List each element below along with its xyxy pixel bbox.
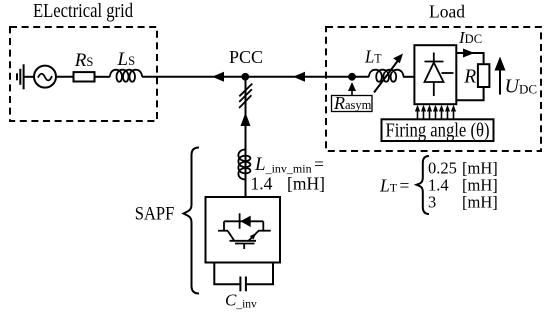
resistor RS bbox=[74, 72, 95, 81]
svg-text:[mH]: [mH] bbox=[287, 173, 325, 193]
thyristor symbol inside rectifier bbox=[425, 53, 454, 97]
inverter box U1 bbox=[206, 197, 281, 263]
node Rasym junction dot bbox=[348, 73, 356, 81]
SAPF brace bbox=[184, 148, 200, 294]
wire inverter to capacitor right bbox=[246, 263, 273, 285]
arrow up toward PCC on SAPF branch bbox=[241, 113, 251, 127]
wire LT to rectifier bbox=[403, 76, 414, 78]
svg-text:1.4: 1.4 bbox=[251, 173, 273, 193]
wire ground to source bbox=[24, 76, 34, 78]
diode D1 bbox=[240, 216, 250, 227]
arrow UDC bbox=[495, 57, 506, 95]
svg-text:SAPF: SAPF bbox=[135, 204, 175, 224]
box label Rasym bbox=[332, 96, 373, 112]
firing angle box bbox=[382, 119, 494, 141]
wire RS to LS bbox=[95, 76, 111, 78]
arrow on wire (current toward grid) bbox=[212, 72, 224, 82]
inductor LS bbox=[110, 70, 142, 82]
wire LS to PCC bbox=[142, 76, 246, 78]
variability arrow through LT bbox=[374, 54, 403, 93]
arrow IDC on wire bbox=[463, 49, 475, 58]
wire PCC to load bbox=[246, 76, 353, 78]
node PCC junction dot bbox=[241, 73, 249, 81]
three-phase slashes on PCC branch bbox=[239, 84, 252, 108]
arrow on wire (current toward PCC) bbox=[293, 72, 305, 82]
wire PCC down to inverter bbox=[245, 77, 247, 197]
brace for LT values bbox=[417, 156, 430, 214]
svg-text:[mH]: [mH] bbox=[462, 193, 498, 212]
svg-text:ELectrical grid: ELectrical grid bbox=[33, 1, 133, 22]
resistor R bbox=[478, 64, 490, 87]
diode loop wires bbox=[218, 230, 228, 232]
wire rectifier to R bottom bbox=[456, 87, 483, 100]
ac source VS bbox=[34, 66, 56, 88]
wire source to RS bbox=[56, 76, 74, 78]
igbt with antiparallel diode inside inverter bbox=[218, 213, 271, 249]
inductor LT (variable) bbox=[369, 70, 403, 82]
dashed box: Electrical grid bbox=[10, 27, 157, 121]
wire inverter to capacitor left bbox=[214, 263, 240, 285]
svg-text:Load: Load bbox=[429, 1, 465, 21]
svg-text:Firing angle (θ): Firing angle (θ) bbox=[386, 119, 490, 141]
firing pulse arrows bbox=[415, 105, 456, 120]
wire Rasym node to LT bbox=[352, 76, 369, 78]
igbt Q1 bbox=[228, 231, 235, 241]
svg-text:PCC: PCC bbox=[229, 47, 263, 67]
dashed box: Load bbox=[326, 27, 541, 151]
rectifier box bbox=[414, 45, 456, 104]
svg-text:=: = bbox=[400, 176, 410, 196]
ground bbox=[17, 64, 24, 89]
svg-text:R: R bbox=[463, 67, 476, 88]
svg-text:3: 3 bbox=[428, 193, 436, 212]
wire rectifier to R top bbox=[456, 53, 483, 64]
arrow from Rasym to node bbox=[348, 82, 356, 96]
capacitor C_inv bbox=[240, 277, 246, 292]
inductor L_inv bbox=[238, 150, 250, 180]
